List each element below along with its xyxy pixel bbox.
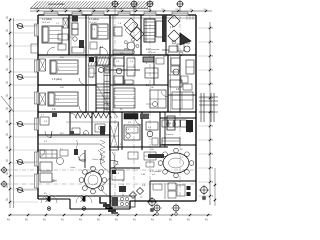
svg-text:1.3 pokoj: 1.3 pokoj bbox=[89, 18, 99, 21]
svg-text:salon: salon bbox=[70, 167, 76, 169]
svg-text:16.4 m2: 16.4 m2 bbox=[42, 22, 51, 24]
svg-text:G: G bbox=[85, 134, 87, 136]
svg-text:1.2 pokoj: 1.2 pokoj bbox=[42, 18, 52, 21]
svg-text:BH: BH bbox=[52, 179, 57, 183]
svg-text:1.5 pokoj: 1.5 pokoj bbox=[52, 78, 62, 81]
svg-text:4.2 jadalnia: 4.2 jadalnia bbox=[150, 171, 162, 173]
svg-text:granica dzialki: granica dzialki bbox=[48, 2, 65, 6]
svg-text:kuchnia: kuchnia bbox=[166, 134, 174, 136]
svg-text:12.34: 12.34 bbox=[90, 73, 96, 75]
svg-text:34.6 m2: 34.6 m2 bbox=[148, 52, 156, 54]
